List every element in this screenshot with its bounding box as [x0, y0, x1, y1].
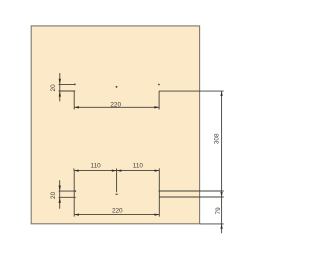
svg-text:110: 110: [133, 162, 144, 169]
svg-text:20: 20: [50, 191, 57, 199]
svg-text:79: 79: [215, 207, 222, 215]
svg-text:110: 110: [91, 162, 102, 169]
svg-text:308: 308: [213, 133, 220, 144]
svg-text:20: 20: [50, 84, 57, 92]
svg-text:220: 220: [112, 208, 123, 215]
svg-text:220: 220: [110, 101, 121, 108]
